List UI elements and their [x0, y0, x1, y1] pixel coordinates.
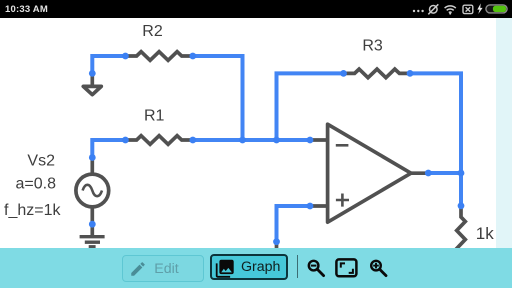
node at ground of non-inverting input [273, 238, 280, 245]
Edit button (disabled) [122, 255, 204, 282]
node at ground of R2 [89, 70, 96, 77]
bottom toolbar [0, 248, 512, 288]
wire from R1 right to op-amp inverting input [193, 138, 310, 142]
resistor 1k [457, 206, 466, 273]
node at R1 right terminal [189, 137, 196, 144]
node at op-amp output [425, 170, 432, 177]
node at Vs2 bottom terminal [89, 221, 96, 228]
node at R2 right terminal [189, 53, 196, 60]
ground stub under op-amp + input [275, 242, 279, 249]
node at op-amp inverting input [307, 137, 314, 144]
node at R3 right terminal [407, 70, 414, 77]
status bar [0, 0, 512, 18]
ground (bars) under Vs2 [80, 237, 105, 247]
svg-text:R2: R2 [142, 23, 163, 40]
svg-text:a=0.8: a=0.8 [16, 176, 57, 193]
svg-text:R3: R3 [362, 38, 383, 55]
status bar icons [0, 0, 512, 18]
sine symbol of Vs2 [83, 185, 102, 196]
junction of output wire with right rail [458, 170, 465, 177]
op-amp U1 [310, 124, 428, 222]
right pale panel strip [496, 18, 512, 248]
wire from R1 left to Vs2 top [92, 140, 125, 158]
resistor R3 [344, 69, 411, 78]
wire from summing node up to R3 left [277, 73, 344, 140]
svg-text:R1: R1 [144, 107, 165, 124]
resistor R1 [125, 136, 192, 145]
fit screen icon [335, 258, 358, 278]
junction of R3 branch with summing wire [273, 137, 280, 144]
node at R2 left terminal [122, 53, 129, 60]
node at R3 left terminal [340, 70, 347, 77]
op-amp minus sign [336, 144, 349, 147]
voltage source Vs2 [76, 158, 109, 237]
node at Vs2 top terminal [89, 154, 96, 161]
ground (triangle) at R2 left [83, 73, 101, 94]
status bar clock [5, 4, 75, 16]
resistor R2 [125, 52, 192, 61]
node at op-amp non-inverting input [307, 203, 314, 210]
wire from op-amp non-inverting input down to ground [277, 206, 311, 242]
wire from R2 right down to node at R1 output [193, 56, 243, 140]
node at R1 left terminal [122, 137, 129, 144]
zoom out icon [304, 255, 328, 280]
toolbar separator [297, 255, 298, 278]
svg-text:f_hz=1k: f_hz=1k [4, 202, 61, 219]
op-amp plus sign [336, 194, 349, 207]
svg-text:1k: 1k [476, 224, 494, 243]
wire from R2 left to ground [92, 56, 125, 73]
wire from R3 right down to 1k resistor [410, 73, 461, 205]
Graph button (active) [210, 254, 288, 281]
svg-text:Vs2: Vs2 [27, 153, 55, 170]
wire from op-amp output to right rail [428, 171, 461, 175]
junction of R2 branch with summing wire [239, 137, 246, 144]
zoom in icon [366, 255, 390, 280]
node at 1k resistor top terminal [458, 202, 465, 209]
